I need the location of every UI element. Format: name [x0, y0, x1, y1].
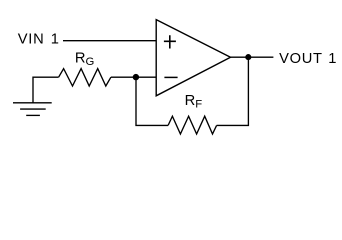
svg-text:VOUT 1: VOUT 1 — [279, 51, 337, 67]
op-amp U1 — [156, 20, 230, 96]
resistor RG — [59, 69, 111, 86]
wire op-amp output to VOUT 1 — [231, 56, 274, 58]
op-amp - input pin marker — [164, 76, 177, 78]
op-amp + input pin marker — [164, 35, 176, 48]
wire RG to ground branch corner — [33, 77, 59, 103]
input label VIN 1 — [18, 32, 60, 48]
svg-text:VIN 1: VIN 1 — [18, 32, 60, 48]
ground — [13, 103, 52, 116]
wire junction down to RF — [136, 77, 168, 125]
node output junction — [245, 54, 251, 60]
label RG — [75, 50, 94, 68]
wire RG to inverting input — [111, 76, 156, 78]
wire VIN 1 to op-amp noninverting input — [63, 40, 156, 42]
resistor RF — [168, 116, 217, 134]
output label VOUT 1 — [279, 51, 337, 67]
label RF — [185, 93, 203, 111]
svg-text:RG: RG — [75, 50, 94, 68]
node inverting-input junction — [133, 74, 139, 80]
wire RF to output branch corner — [217, 57, 249, 125]
svg-text:RF: RF — [185, 93, 203, 111]
